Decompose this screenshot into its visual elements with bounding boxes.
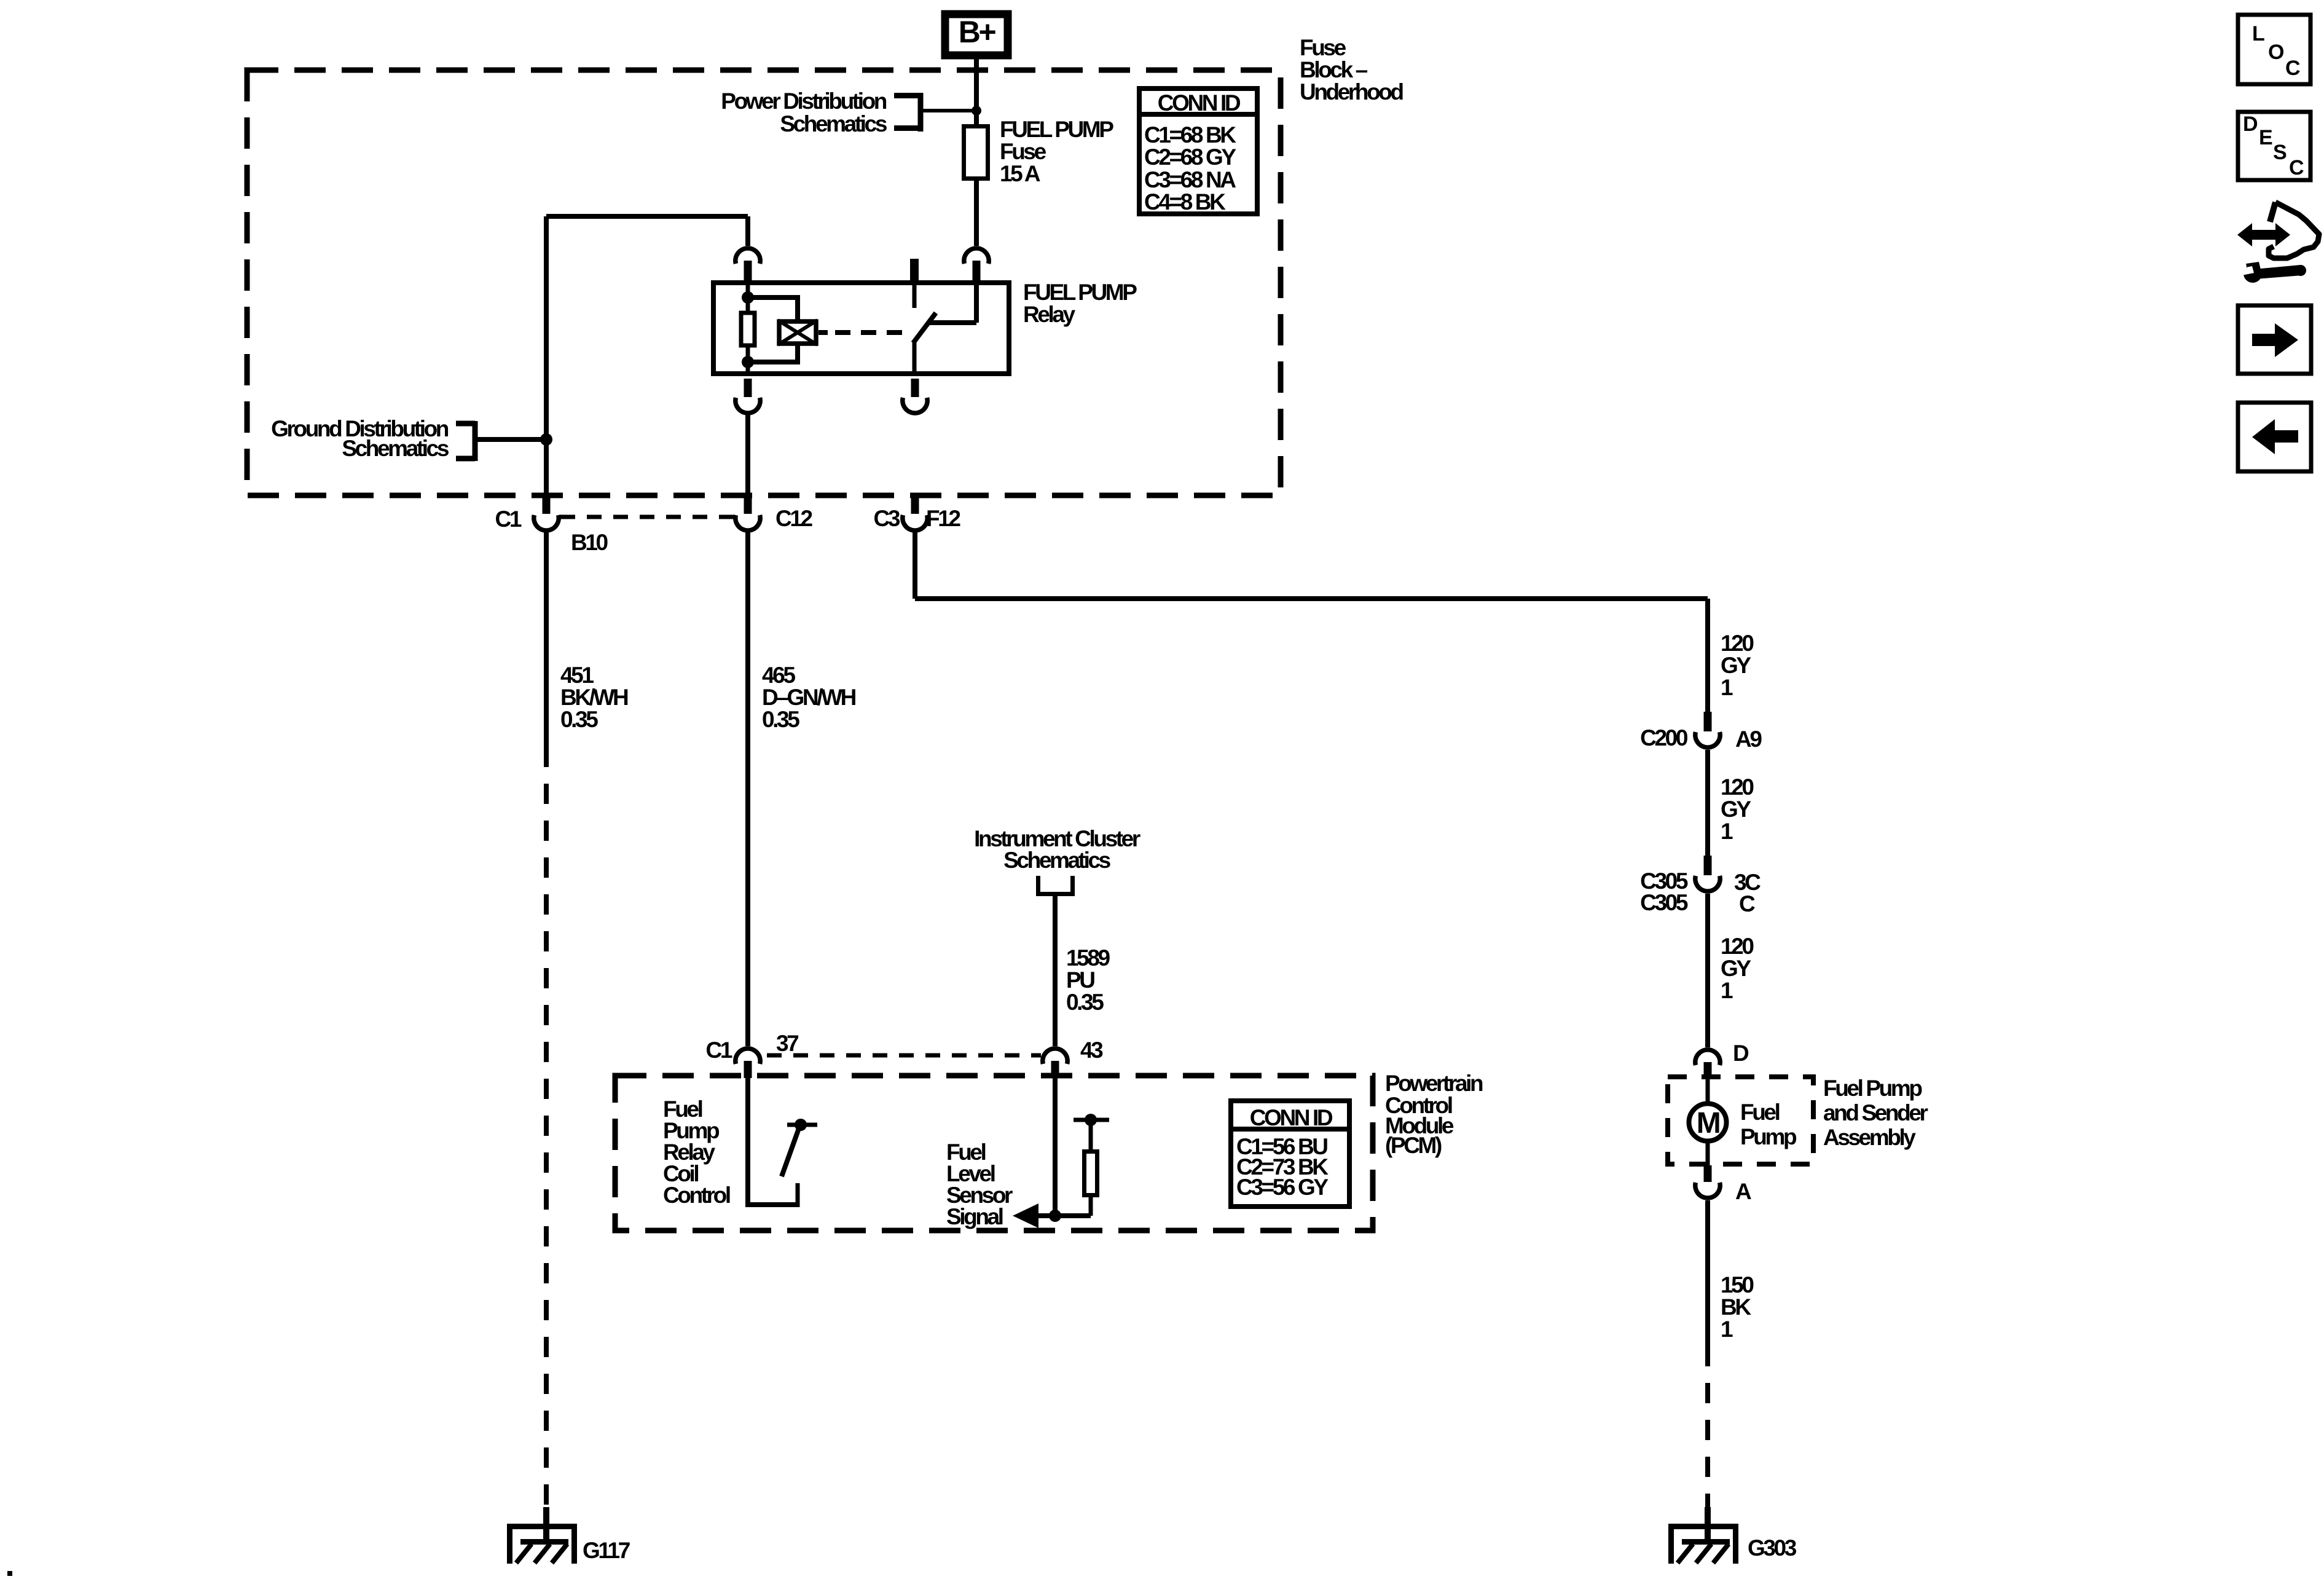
svg-text:Schematics: Schematics bbox=[342, 436, 449, 461]
wire 150 solid segment bbox=[1705, 1200, 1710, 1346]
wire relay coil loop bbox=[748, 297, 798, 362]
label FUEL PUMP Fuse 15 A bbox=[1000, 117, 1113, 186]
label pin D bbox=[1733, 1041, 1749, 1066]
fuse F - FUEL PUMP Fuse 15 A bbox=[964, 127, 988, 179]
svg-text:BK/WH: BK/WH bbox=[560, 685, 628, 710]
svg-text:E: E bbox=[2259, 126, 2272, 149]
svg-text:Fuse: Fuse bbox=[1000, 139, 1046, 164]
svg-text:C3=68 NA: C3=68 NA bbox=[1144, 167, 1236, 192]
svg-text:120: 120 bbox=[1721, 934, 1754, 959]
icon component-view tool bbox=[2237, 202, 2319, 283]
label Fuel Pump Relay Coil Control bbox=[663, 1097, 730, 1208]
wire PCM pin 43 to sensor circuit bbox=[1053, 1078, 1058, 1216]
fuel pump and sender assembly dashed outline bbox=[1668, 1077, 1813, 1164]
motor M fuel pump bbox=[1689, 1079, 1727, 1165]
icon LOC button bbox=[2238, 15, 2310, 84]
svg-text:Fuel: Fuel bbox=[1740, 1100, 1780, 1125]
svg-text:Underhood: Underhood bbox=[1300, 79, 1403, 104]
relay pin 87 connector bottom-left bbox=[736, 379, 760, 413]
fuse block underhood dashed outline bbox=[247, 70, 1281, 495]
svg-text:GY: GY bbox=[1721, 797, 1751, 822]
svg-text:O: O bbox=[2268, 41, 2284, 64]
svg-text:C: C bbox=[1739, 891, 1755, 916]
relay pin 85 connector top-right bbox=[964, 248, 989, 280]
svg-text:C3=56 GY: C3=56 GY bbox=[1236, 1175, 1329, 1200]
wire relay 86 feed loop bbox=[546, 216, 748, 498]
wire 451 dashed segment to G117 bbox=[544, 747, 549, 1510]
svg-text:A: A bbox=[1735, 1179, 1751, 1204]
svg-text:15 A: 15 A bbox=[1000, 161, 1040, 186]
svg-text:0.35: 0.35 bbox=[1066, 990, 1104, 1015]
svg-text:Schematics: Schematics bbox=[780, 111, 887, 136]
relay pin 30 stub top-middle bbox=[910, 259, 919, 308]
svg-text:F12: F12 bbox=[926, 506, 960, 531]
label Fuse Block - Underhood bbox=[1300, 35, 1403, 104]
svg-text:Powertrain: Powertrain bbox=[1385, 1071, 1483, 1096]
PCM dashed outline bbox=[615, 1076, 1373, 1231]
svg-text:C3: C3 bbox=[874, 506, 900, 531]
svg-text:C4=8 BK: C4=8 BK bbox=[1144, 189, 1226, 215]
label Instrument Cluster Schematics bbox=[974, 826, 1140, 873]
label C3 bbox=[874, 506, 900, 531]
wire switch common bbox=[913, 342, 917, 376]
svg-text:D–GN/WH: D–GN/WH bbox=[762, 685, 856, 710]
svg-text:C305: C305 bbox=[1640, 890, 1688, 915]
dashed connector link C1-C12 bbox=[560, 515, 735, 519]
connector C305 pin 3C bbox=[1695, 856, 1720, 891]
wire PCM pin 37 to driver switch bbox=[748, 1078, 798, 1207]
node relay coil bottom junction bbox=[742, 356, 754, 368]
relay coil winding symbol bbox=[778, 320, 817, 345]
label Powertrain Control Module (PCM) bbox=[1385, 1071, 1483, 1158]
relay pin 86 connector top-left bbox=[736, 248, 760, 280]
svg-text:C200: C200 bbox=[1640, 725, 1688, 750]
svg-text:G303: G303 bbox=[1748, 1535, 1797, 1561]
node junction at fuse top bbox=[972, 106, 981, 116]
ground G117 symbol bbox=[507, 1507, 577, 1564]
svg-text:Fuel Pump: Fuel Pump bbox=[1823, 1076, 1922, 1101]
svg-text:C1: C1 bbox=[495, 506, 522, 532]
svg-text:PU: PU bbox=[1066, 967, 1094, 993]
relay pin 87a connector bottom-middle bbox=[903, 379, 927, 413]
svg-text:Signal: Signal bbox=[946, 1204, 1003, 1229]
icon next-page arrow button bbox=[2238, 305, 2311, 374]
node sensor signal junction bbox=[1049, 1210, 1061, 1222]
icon previous-page arrow button bbox=[2238, 403, 2311, 471]
wire 1589 cluster to PCM bbox=[1053, 896, 1058, 1046]
svg-text:C2=68 GY: C2=68 GY bbox=[1144, 144, 1236, 170]
svg-text:C12: C12 bbox=[775, 506, 812, 531]
svg-text:GY: GY bbox=[1721, 956, 1751, 981]
wire fuse to relay pin bbox=[974, 181, 979, 246]
wire sensor signal horizontal bbox=[1032, 1213, 1091, 1218]
dashed actuator link bbox=[835, 330, 904, 335]
node PCM driver collector bbox=[787, 1119, 817, 1131]
svg-text:0.35: 0.35 bbox=[560, 707, 598, 732]
wire F12 to fuel pump feed bbox=[915, 530, 1708, 712]
label F12 bbox=[926, 506, 960, 531]
wire 465 relay to PCM bbox=[745, 413, 750, 1046]
node ground distribution junction bbox=[540, 433, 552, 446]
svg-text:L: L bbox=[2252, 22, 2264, 45]
svg-text:Power Distribution: Power Distribution bbox=[721, 89, 886, 114]
label Ground Distribution Schematics bbox=[271, 416, 449, 461]
label wire 120 GY 1 (segment 2) bbox=[1721, 774, 1754, 844]
svg-text:37: 37 bbox=[776, 1031, 798, 1056]
wire B+ to fuse bbox=[974, 59, 979, 127]
svg-text:1: 1 bbox=[1721, 1317, 1733, 1342]
label Fuel Pump (inside assembly) bbox=[1740, 1100, 1797, 1149]
svg-text:1589: 1589 bbox=[1066, 945, 1110, 971]
svg-text:CONN ID: CONN ID bbox=[1158, 90, 1241, 116]
svg-text:Pump: Pump bbox=[1740, 1124, 1797, 1149]
label C12 bbox=[775, 506, 812, 531]
connector C200 pin A9 bbox=[1695, 712, 1720, 747]
wire relay coil through resistor bbox=[746, 313, 750, 362]
svg-text:and Sender: and Sender bbox=[1823, 1100, 1928, 1125]
label wire 120 GY 1 (segment 3) bbox=[1721, 934, 1754, 1003]
svg-text:GY: GY bbox=[1721, 653, 1751, 678]
label G303 bbox=[1748, 1535, 1797, 1561]
svg-text:120: 120 bbox=[1721, 774, 1754, 800]
instrument cluster reference bracket bbox=[1038, 876, 1073, 896]
node pull-up top bbox=[1074, 1114, 1109, 1126]
svg-text:Relay: Relay bbox=[1023, 302, 1076, 327]
svg-text:B+: B+ bbox=[959, 15, 996, 49]
svg-text:C: C bbox=[2285, 57, 2300, 80]
label Fuel Level Sensor Signal bbox=[946, 1140, 1013, 1229]
svg-text:1: 1 bbox=[1721, 819, 1733, 844]
svg-text:Schematics: Schematics bbox=[1003, 848, 1110, 873]
svg-text:D: D bbox=[2243, 112, 2258, 136]
wire C305 to fuel pump bbox=[1705, 894, 1710, 1047]
svg-text:465: 465 bbox=[762, 663, 795, 688]
svg-text:D: D bbox=[1733, 1041, 1749, 1066]
wire junction to power-distribution bracket bbox=[921, 109, 976, 112]
svg-text:FUEL PUMP: FUEL PUMP bbox=[1000, 117, 1113, 142]
ground G303 symbol bbox=[1668, 1507, 1738, 1564]
label C305 C305 bbox=[1640, 868, 1688, 915]
label wire 451 BK/WH 0.35 bbox=[560, 663, 628, 732]
label wire 1589 PU 0.35 bbox=[1066, 945, 1110, 1015]
label pin 43 bbox=[1080, 1038, 1103, 1063]
label B10 bbox=[571, 530, 608, 555]
svg-text:C1: C1 bbox=[706, 1038, 732, 1063]
svg-text:Control: Control bbox=[663, 1183, 730, 1208]
label FUEL PUMP Relay bbox=[1023, 280, 1137, 327]
svg-text:FUEL PUMP: FUEL PUMP bbox=[1023, 280, 1137, 305]
svg-text:M: M bbox=[1697, 1107, 1719, 1140]
icon DESC button bbox=[2238, 112, 2310, 180]
resistor PCM fuel level pull-up bbox=[1085, 1122, 1097, 1216]
svg-text:Assembly: Assembly bbox=[1823, 1125, 1916, 1150]
label G117 bbox=[583, 1538, 630, 1563]
connector C3 pin F12 (fuse block) bbox=[903, 495, 927, 530]
svg-text:BK: BK bbox=[1721, 1294, 1751, 1320]
wire switch contact to pin 85 bbox=[928, 280, 976, 323]
svg-text:(PCM): (PCM) bbox=[1385, 1133, 1442, 1158]
connector PCM C1 pin 43 bbox=[1043, 1049, 1067, 1078]
label Power Distribution Schematics bbox=[721, 89, 887, 136]
wire junction to ground-distribution bracket bbox=[475, 437, 546, 442]
svg-text:Fuse: Fuse bbox=[1300, 35, 1346, 60]
svg-text:G117: G117 bbox=[583, 1538, 630, 1563]
svg-text:S: S bbox=[2273, 141, 2287, 164]
power distribution reference bracket bbox=[894, 93, 921, 132]
connector fuel pump pin D bbox=[1695, 1050, 1720, 1079]
svg-text:Block –: Block – bbox=[1300, 57, 1368, 82]
connector table CONN ID fuse block bbox=[1137, 89, 1260, 215]
label pin A bbox=[1735, 1179, 1751, 1204]
connector C1 pin B10 (fuse block) bbox=[534, 495, 559, 530]
relay switch arm bbox=[913, 313, 936, 343]
wire coil to actuator link bbox=[819, 330, 828, 335]
label C1 at PCM bbox=[706, 1038, 732, 1063]
svg-text:B10: B10 bbox=[571, 530, 608, 555]
label Fuel Pump and Sender Assembly bbox=[1823, 1076, 1928, 1150]
ground distribution reference bracket bbox=[456, 421, 475, 461]
wire 150 dashed segment to G303 bbox=[1705, 1346, 1710, 1510]
svg-text:0.35: 0.35 bbox=[762, 707, 799, 732]
PCM driver switch arm bbox=[782, 1128, 799, 1176]
label wire 150 BK 1 bbox=[1721, 1272, 1754, 1342]
wire 451 solid segment bbox=[544, 530, 549, 747]
svg-text:1: 1 bbox=[1721, 978, 1733, 1003]
arrow sensor signal direction bbox=[1013, 1203, 1038, 1228]
label pin 37 bbox=[776, 1031, 798, 1056]
label A9 bbox=[1735, 726, 1762, 752]
relay K - FUEL PUMP Relay box bbox=[713, 283, 1009, 374]
wire relay coil top bbox=[746, 280, 750, 313]
node B+ battery positive terminal bbox=[945, 14, 1008, 55]
label wire 465 D-GN/WH 0.35 bbox=[762, 663, 856, 732]
connector table CONN ID PCM bbox=[1228, 1101, 1352, 1207]
wire relay coil bottom bbox=[746, 362, 750, 376]
svg-text:451: 451 bbox=[560, 663, 594, 688]
page artifact dot bottom-left bbox=[7, 1571, 12, 1576]
label wire 120 GY 1 (segment 1) bbox=[1721, 631, 1754, 700]
svg-text:CONN ID: CONN ID bbox=[1250, 1105, 1333, 1130]
label C1 bbox=[495, 506, 522, 532]
label C200 bbox=[1640, 725, 1688, 750]
node relay coil top junction bbox=[742, 291, 754, 304]
svg-text:A9: A9 bbox=[1735, 726, 1762, 752]
connector fuel pump pin A bbox=[1695, 1165, 1720, 1198]
wire C200 to C305 bbox=[1705, 750, 1710, 856]
svg-text:120: 120 bbox=[1721, 631, 1754, 656]
connector C2 pin C12 (fuse block) bbox=[736, 495, 760, 530]
svg-text:1: 1 bbox=[1721, 675, 1733, 700]
svg-text:43: 43 bbox=[1080, 1038, 1103, 1063]
svg-text:C1=68 BK: C1=68 BK bbox=[1144, 122, 1236, 148]
resistor relay coil suppression bbox=[741, 313, 755, 345]
connector PCM C1 pin 37 bbox=[736, 1049, 760, 1078]
label 3C C bbox=[1734, 870, 1761, 916]
svg-text:C: C bbox=[2289, 156, 2304, 179]
dashed connector link 37-43 bbox=[767, 1053, 1041, 1058]
svg-text:150: 150 bbox=[1721, 1272, 1754, 1297]
